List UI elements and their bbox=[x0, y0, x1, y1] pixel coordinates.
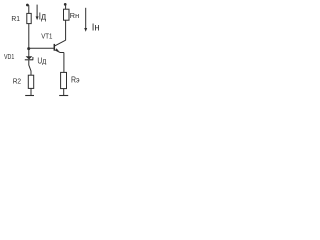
input terminal dot left bbox=[26, 4, 29, 7]
terminal bar right bbox=[59, 95, 68, 97]
wire Rn top lead bbox=[65, 5, 67, 9]
wire emitter to Re bbox=[63, 53, 65, 73]
wire base bbox=[29, 47, 54, 49]
svg-text:Rэ: Rэ bbox=[71, 75, 80, 84]
current arrow Id bbox=[36, 5, 38, 18]
transistor VT1 emitter bbox=[55, 50, 64, 53]
resistor R2 bbox=[28, 75, 33, 88]
wire Rn bottom to collector bbox=[65, 20, 67, 40]
resistor Rn bbox=[64, 9, 70, 20]
wire R1 top lead bbox=[28, 5, 30, 13]
resistor R1 bbox=[27, 13, 31, 23]
svg-text:R1: R1 bbox=[11, 14, 20, 23]
svg-text:VD1: VD1 bbox=[4, 54, 14, 61]
svg-text:VT1: VT1 bbox=[41, 32, 52, 41]
transistor VT1 collector bbox=[55, 40, 66, 46]
wire R2 bottom bbox=[30, 88, 32, 95]
input terminal dot right bbox=[64, 3, 67, 6]
wire R1 bottom to junction bbox=[28, 24, 30, 49]
svg-text:Iн: Iн bbox=[92, 23, 100, 34]
terminal bar left bbox=[25, 95, 34, 97]
resistor Re bbox=[61, 72, 67, 88]
svg-text:R2: R2 bbox=[13, 77, 21, 86]
svg-text:Uд: Uд bbox=[37, 56, 46, 65]
wire zener to R2 bbox=[29, 60, 31, 75]
wire Re bottom bbox=[63, 89, 65, 96]
transistor VT1 base bar bbox=[53, 44, 55, 51]
wire junction to zener bbox=[28, 49, 30, 57]
zener diode VD1 bbox=[26, 56, 33, 59]
current arrow In bbox=[85, 8, 87, 29]
svg-text:Iд: Iд bbox=[39, 12, 47, 23]
junction dot base node bbox=[27, 47, 30, 50]
svg-text:Rн: Rн bbox=[70, 11, 79, 20]
